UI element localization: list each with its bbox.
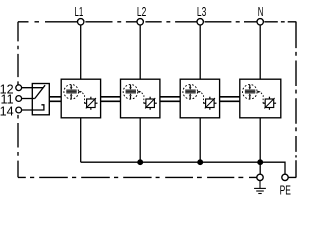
actuate arrow right U2 xyxy=(138,91,139,93)
varistor stub right U2 xyxy=(154,102,156,104)
arrow up onto bar U2 xyxy=(130,96,132,99)
disconnect device U4 dashed circle xyxy=(243,85,258,100)
disconnect device U1 dashed circle xyxy=(64,85,79,100)
arrow down onto bar U3 xyxy=(189,85,191,88)
wire module 1 bottom lead xyxy=(80,118,82,162)
varistor stub top U3 xyxy=(209,97,211,99)
disconnect device U3 dashed circle xyxy=(183,85,198,100)
signalling double line upper xyxy=(49,96,240,98)
terminal 12 xyxy=(16,85,22,91)
enclosure border bottom (dash-dot) xyxy=(18,176,296,178)
wire L1 lead xyxy=(80,25,82,79)
varistor stub right U3 xyxy=(214,102,216,104)
remote signalling contact box xyxy=(32,84,49,115)
thermal element bar U1 xyxy=(66,90,76,94)
thermal element bar U3 xyxy=(185,90,195,94)
varistor stub top U4 xyxy=(268,97,270,99)
junction L2 bus xyxy=(138,160,143,165)
wire 11 to pivot xyxy=(22,98,35,100)
svg-text:L3: L3 xyxy=(197,6,206,20)
varistor square U2 xyxy=(146,99,155,108)
ground symbol xyxy=(254,181,266,194)
actuate arrow right U1 xyxy=(79,91,80,93)
varistor stub right U4 xyxy=(274,102,276,104)
dashed linkage U3 xyxy=(201,93,203,103)
svg-text:N: N xyxy=(258,5,264,19)
terminal 14 xyxy=(16,107,22,113)
arrow down onto bar U4 xyxy=(249,85,251,88)
varistor diagonal U4 xyxy=(264,98,274,108)
svg-text:L2: L2 xyxy=(137,6,146,20)
dashed linkage U4 xyxy=(261,93,263,103)
dashed linkage U2 xyxy=(142,93,144,103)
varistor square U1 xyxy=(87,99,96,108)
varistor stub left U4 xyxy=(263,102,265,104)
varistor stub bottom U1 xyxy=(90,108,92,110)
junction N bus xyxy=(258,160,263,165)
varistor square U4 xyxy=(265,99,274,108)
terminal L1 xyxy=(78,19,84,25)
junction L3 bus xyxy=(198,160,203,165)
varistor stub left U3 xyxy=(203,102,205,104)
svg-text:14: 14 xyxy=(0,103,14,118)
terminal PE circle xyxy=(282,174,288,180)
svg-text:L1: L1 xyxy=(74,5,83,19)
enclosure border right (dash-dot) xyxy=(295,22,297,178)
varistor stub bottom U4 xyxy=(268,108,270,110)
arrow up onto bar U4 xyxy=(249,96,251,99)
signalling double line lower xyxy=(49,100,240,102)
SPD module box 1 xyxy=(61,79,100,118)
wire N lead xyxy=(259,25,261,79)
wire module 2 bottom lead xyxy=(139,118,141,162)
terminal N xyxy=(257,19,263,25)
varistor diagonal U2 xyxy=(145,98,155,108)
enclosure border top (dash-dot) xyxy=(18,21,296,23)
varistor diagonal U1 xyxy=(86,98,96,108)
terminal L3 xyxy=(197,19,203,25)
arrow down onto bar U2 xyxy=(130,85,132,88)
dashed linkage U1 xyxy=(82,93,84,103)
varistor stub top U2 xyxy=(149,97,151,99)
wire module 3 bottom lead xyxy=(199,118,201,162)
varistor diagonal U3 xyxy=(205,98,215,108)
svg-text:PE: PE xyxy=(280,184,291,197)
thermal element bar U4 xyxy=(245,90,255,94)
varistor stub bottom U2 xyxy=(149,108,151,110)
terminal 11 xyxy=(16,96,22,102)
wire junction to earth terminal xyxy=(259,162,261,174)
arrow up onto bar U3 xyxy=(189,96,191,99)
varistor square U3 xyxy=(206,99,215,108)
varistor stub left U1 xyxy=(84,102,86,104)
enclosure border left (dash-dot) xyxy=(17,22,19,178)
actuate arrow right U3 xyxy=(198,91,199,93)
earth terminal circle xyxy=(257,174,263,180)
arrow up onto bar U1 xyxy=(70,96,72,99)
wire L2 lead xyxy=(139,25,141,79)
wire module 4 bottom lead xyxy=(259,118,261,162)
actuate arrow right U4 xyxy=(257,91,258,93)
SPD module box 4 xyxy=(240,79,281,118)
SPD module box 3 xyxy=(180,79,219,118)
wire 12 to NC contact xyxy=(22,87,44,89)
varistor stub top U1 xyxy=(90,97,92,99)
thermal element bar U2 xyxy=(126,90,136,94)
arrow down onto bar U1 xyxy=(70,85,72,88)
wire L3 lead xyxy=(199,25,201,79)
changeover lever xyxy=(35,85,45,98)
wire PE bus xyxy=(81,162,285,174)
varistor stub left U2 xyxy=(144,102,146,104)
terminal L2 xyxy=(137,19,143,25)
disconnect device U2 dashed circle xyxy=(123,85,138,100)
varistor stub bottom U3 xyxy=(209,108,211,110)
wire 14 to NO contact xyxy=(22,105,44,110)
SPD module box 2 xyxy=(121,79,160,118)
varistor stub right U1 xyxy=(95,102,97,104)
